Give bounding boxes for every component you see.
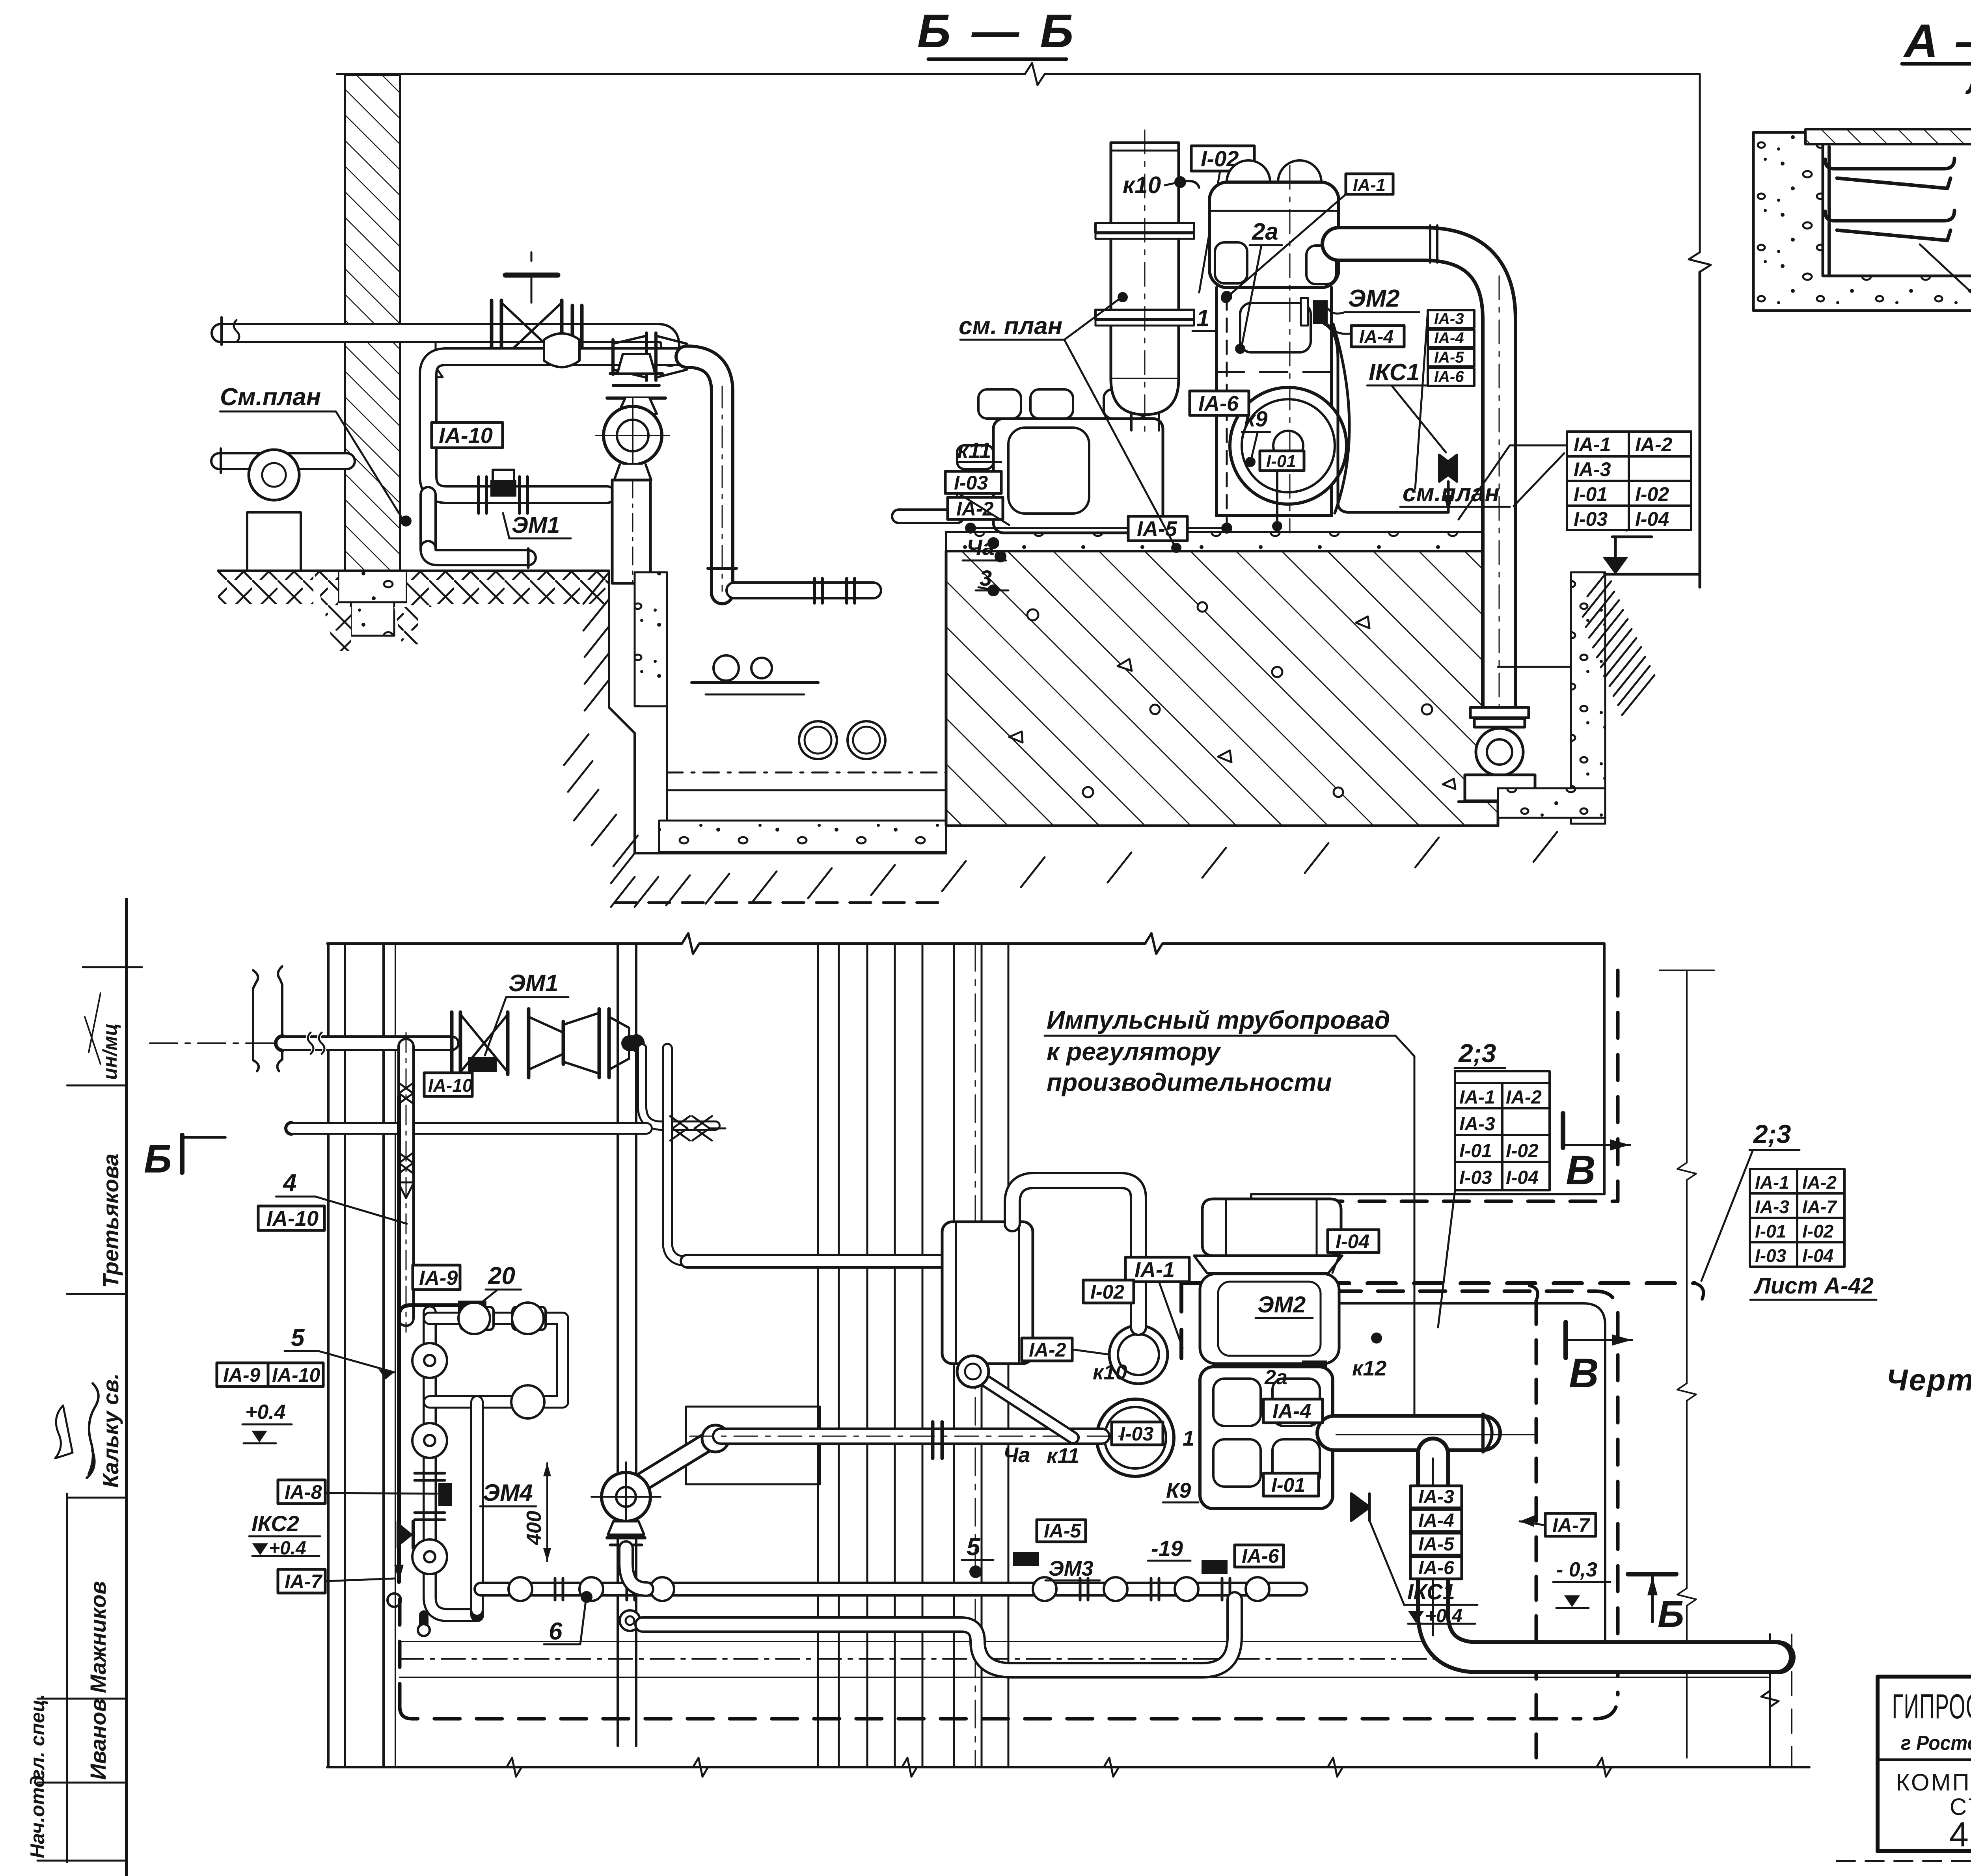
k10 standpipe	[1012, 1180, 1138, 1327]
svg-text:I-01: I-01	[1459, 1141, 1492, 1161]
label IA-5 box	[1128, 516, 1187, 541]
svg-text:IА-2: IА-2	[1029, 1339, 1066, 1361]
svg-text:I-01: I-01	[1271, 1474, 1305, 1496]
svg-text:IА-1: IА-1	[1135, 1258, 1175, 1282]
gate valve with handwheel on P1	[492, 252, 562, 362]
svg-text:см. план: см. план	[959, 313, 1062, 340]
right room wall niche	[1251, 944, 1605, 1655]
svg-text:ЭМ1: ЭМ1	[512, 512, 560, 538]
small U loop under manifold	[643, 1599, 1235, 1670]
svg-text:I-02: I-02	[1506, 1141, 1539, 1161]
hidden cable dashed inside machine	[1226, 296, 1228, 528]
SECTION A-A	[1753, 15, 1971, 438]
label I-04	[1328, 1230, 1379, 1253]
svg-text:IА-4: IА-4	[1272, 1400, 1311, 1423]
bottom-right axis pair with B mark	[1761, 1634, 1792, 1767]
svg-text:В: В	[1569, 1350, 1599, 1396]
svg-text:Кальку св.: Кальку св.	[98, 1373, 123, 1488]
machines: oil separator	[942, 1222, 1033, 1364]
svg-text:2а: 2а	[1252, 218, 1278, 245]
svg-text:I-01: I-01	[1755, 1221, 1786, 1241]
label IA-9 box + 20	[413, 1265, 460, 1290]
svg-text:IА-1: IА-1	[1459, 1087, 1495, 1108]
svg-text:ЭМ1: ЭМ1	[509, 970, 558, 996]
svg-text:ГИПРОСТРОЙДОРМАШ: ГИПРОСТРОЙДОРМАШ	[1892, 1687, 1971, 1726]
pipe bottom flange and support	[1459, 707, 1541, 802]
svg-text:IА-3: IА-3	[1459, 1114, 1495, 1135]
wall footing	[338, 571, 407, 602]
svg-text:I-02: I-02	[1802, 1221, 1834, 1241]
wall striped band (pipe chase)	[818, 944, 1008, 1767]
svg-text:I-01: I-01	[1574, 483, 1608, 505]
top wall line	[327, 933, 1604, 954]
solenoid EM1 plan	[468, 1057, 497, 1072]
svg-text:IА-6: IА-6	[1418, 1558, 1454, 1578]
plan valve cluster	[452, 1009, 629, 1078]
svg-text:ЭМ2: ЭМ2	[1257, 1292, 1306, 1318]
compressor crankcase with flywheel	[1217, 324, 1349, 516]
title block texts	[1892, 1682, 1971, 1854]
TITLE BLOCK	[1878, 1677, 1971, 1851]
svg-text:I-02: I-02	[1635, 483, 1669, 505]
svg-text:4: 4	[282, 1169, 296, 1197]
suction header bulge	[1334, 1414, 1535, 1452]
svg-text:IКС1: IКС1	[1369, 359, 1420, 385]
svg-text:Лист А-42: Лист А-42	[1965, 69, 1971, 100]
svg-text:I-04: I-04	[1635, 508, 1669, 530]
piping ladder left	[397, 1303, 563, 1636]
svg-text:к9: к9	[1244, 406, 1268, 431]
label IA-10 box	[432, 422, 503, 448]
svg-text:IА-5: IА-5	[1137, 517, 1177, 541]
svg-text:IА-8: IА-8	[285, 1481, 322, 1503]
underground pipe in trench	[734, 579, 873, 603]
check valve filled	[1439, 455, 1457, 482]
svg-text:IА-5: IА-5	[1418, 1534, 1455, 1555]
label I-01 box	[1260, 451, 1304, 471]
svg-text:IА-6: IА-6	[1242, 1545, 1280, 1567]
pillar at top left (wall column with breaks)	[253, 970, 259, 1071]
svg-text:IА-4: IА-4	[1359, 326, 1393, 347]
section mark V upper	[1561, 1113, 1565, 1148]
svg-text:- 0,3: - 0,3	[1556, 1558, 1597, 1581]
label IA-7 left	[278, 1569, 325, 1593]
pipe from valves to machines	[687, 1254, 958, 1269]
svg-text:Лист А-42: Лист А-42	[1753, 1273, 1874, 1299]
machines: flywheel plan	[1097, 1399, 1174, 1476]
svg-text:к регулятору: к регулятору	[1047, 1037, 1222, 1066]
pit right of foundation	[1498, 572, 1699, 824]
svg-text:5: 5	[291, 1324, 305, 1351]
hatched lid	[1805, 129, 1971, 144]
machines: air filter plan	[1109, 1325, 1168, 1384]
svg-text:IА-2: IА-2	[1802, 1172, 1837, 1193]
label IA-10 top box	[424, 1073, 472, 1096]
section mark B bottom right	[1628, 1572, 1676, 1576]
oil line diagonal to flywheel	[957, 1356, 1073, 1438]
flow lens on P2	[544, 333, 579, 367]
svg-text:IА-1: IА-1	[1755, 1172, 1789, 1193]
table right of section	[1567, 432, 1691, 530]
svg-text:Б: Б	[144, 1137, 172, 1181]
machines: intake housing plan	[1194, 1199, 1342, 1273]
compressor centreline	[1289, 166, 1291, 533]
lower wall pipe y2850	[285, 1116, 725, 1141]
svg-text:I-03: I-03	[1574, 508, 1608, 530]
svg-text:I-01: I-01	[1266, 452, 1296, 471]
svg-text:См.план: См.план	[220, 383, 321, 411]
cable racks left	[1825, 158, 1954, 240]
svg-text:I-04: I-04	[1336, 1230, 1369, 1253]
svg-text:IА-1: IА-1	[1353, 175, 1386, 195]
svg-text:к10: к10	[1123, 172, 1161, 198]
SECTION B-B	[218, 5, 1711, 907]
band centreline	[975, 944, 976, 1767]
label IA-8	[278, 1480, 325, 1504]
svg-text:IА-4: IА-4	[1434, 329, 1464, 347]
signature texts rotated	[26, 1023, 123, 1858]
left cylinder block machine	[957, 389, 1163, 533]
section mark V lower	[1563, 1322, 1568, 1358]
stacked boxes IA-3..IA-6 right	[1410, 1486, 1462, 1579]
svg-text:Нач.отд.: Нач.отд.	[26, 1770, 48, 1858]
drop pipe to trench	[687, 357, 736, 593]
svg-text:4К-10А: 4К-10А	[1949, 1815, 1971, 1854]
left wall double line	[328, 944, 636, 1767]
concrete trench body	[1753, 132, 1971, 311]
svg-text:IА-2: IА-2	[1635, 434, 1673, 456]
svg-text:I-03: I-03	[1755, 1245, 1787, 1266]
supply pipe end bulb and risers	[629, 1035, 715, 1261]
signature column lines	[37, 899, 142, 1876]
rack posts	[1829, 147, 1971, 274]
big discharge loop pipe	[1433, 1454, 1779, 1657]
foundation hatched block	[946, 532, 1498, 826]
machines: motor EM2 plan	[1200, 1274, 1339, 1364]
compressor head	[1209, 160, 1339, 288]
horizontal pipe to flywheel	[690, 1422, 1123, 1458]
labels I-03 IA-2 Cha 3 left column	[945, 471, 1001, 493]
pump slab outline	[686, 1407, 820, 1484]
svg-text:IКС1: IКС1	[1407, 1579, 1455, 1604]
label IA-7 right box	[1545, 1513, 1596, 1536]
machines: compressor body plan	[1200, 1367, 1333, 1509]
bypass loop P2	[428, 357, 687, 568]
svg-text:IКС2: IКС2	[251, 1511, 299, 1536]
pipe stub to left machine	[899, 508, 957, 524]
label I-03 box	[1112, 1422, 1163, 1445]
svg-text:2;3: 2;3	[1458, 1038, 1496, 1068]
dashed mark under title block	[1837, 1860, 1971, 1862]
check valve dark in plan	[1351, 1494, 1369, 1521]
svg-text:ЭМ4: ЭМ4	[483, 1480, 533, 1506]
svg-text:К9: К9	[1166, 1479, 1191, 1502]
wall hatched	[345, 75, 400, 571]
svg-text:Импульсный трубопровад: Импульсный трубопровад	[1047, 1006, 1390, 1034]
label I-02 box	[1191, 146, 1254, 171]
svg-text:ЭМ3: ЭМ3	[1049, 1557, 1094, 1580]
labels IA-9 IA-10 pair	[217, 1363, 268, 1387]
dashed cable route D3	[400, 1599, 1618, 1719]
cable from EM2 down body side	[1325, 324, 1448, 512]
label EM3 + IA-5	[1037, 1520, 1086, 1542]
dashed cable route D2 along niche	[1257, 970, 1618, 1695]
svg-text:IА-2: IА-2	[956, 498, 994, 520]
svg-text:Мажников: Мажников	[86, 1581, 110, 1693]
svg-text:I-04: I-04	[1506, 1167, 1539, 1188]
svg-text:I-03: I-03	[1459, 1167, 1492, 1188]
ground line left	[218, 569, 609, 572]
svg-text:Чертеж выполнен на листах: Чертеж выполнен на листах А-42... А-44.	[1886, 1363, 1971, 1397]
svg-text:400: 400	[523, 1511, 546, 1545]
svg-text:IА-4: IА-4	[1418, 1510, 1454, 1531]
drain valve below P1	[428, 342, 443, 388]
svg-text:2;3: 2;3	[1753, 1119, 1791, 1148]
svg-text:-19: -19	[1151, 1536, 1183, 1561]
svg-text:I-02: I-02	[1090, 1281, 1124, 1303]
svg-text:20: 20	[488, 1262, 515, 1290]
suction pipe P1 through wall with valves	[221, 317, 670, 357]
label IA-4 box	[1351, 326, 1404, 347]
svg-text:2а: 2а	[1264, 1366, 1287, 1389]
svg-text:см.план: см.план	[1403, 480, 1500, 507]
svg-text:IА-7: IА-7	[285, 1571, 323, 1593]
svg-text:к12: к12	[1352, 1357, 1386, 1380]
trench left of foundation	[564, 572, 1557, 907]
air filter column	[1095, 130, 1194, 434]
discharge big pipe	[1339, 225, 1499, 707]
svg-text:IА-10: IА-10	[272, 1364, 320, 1386]
svg-text:1: 1	[1196, 305, 1209, 331]
svg-text:IА-3: IА-3	[1434, 310, 1464, 328]
svg-text:IА-10: IА-10	[439, 423, 493, 448]
svg-text:г Ростов-на-Дону 1976г: г Ростов-на-Дону 1976г	[1901, 1732, 1971, 1755]
stacked boxes IA-3..IA-6	[1428, 310, 1474, 386]
svg-text:ЭМ2: ЭМ2	[1348, 285, 1400, 312]
svg-text:А — А: А — А	[1903, 15, 1971, 67]
compressor body	[1217, 288, 1332, 516]
svg-text:ин/мц: ин/мц	[99, 1023, 121, 1080]
svg-text:IА-3: IА-3	[1574, 458, 1611, 480]
svg-text:IА-3: IА-3	[1418, 1487, 1454, 1507]
dashed drop to IA-7	[1529, 1286, 1538, 1301]
svg-text:I-03: I-03	[1120, 1423, 1153, 1445]
bottom wall line	[327, 1758, 1809, 1777]
machines bottom line	[946, 531, 1498, 533]
svg-text:IА-6: IА-6	[1198, 392, 1239, 415]
bottom manifold pipe	[481, 1577, 1301, 1601]
slanted pump unit lower	[591, 1425, 729, 1631]
svg-text:IА-9: IА-9	[419, 1267, 458, 1290]
svg-text:IА-9: IА-9	[223, 1364, 261, 1386]
svg-text:IА-5: IА-5	[1434, 349, 1464, 366]
axis line right	[1660, 970, 1714, 1758]
svg-text:Б — Б: Б — Б	[917, 5, 1078, 58]
pump unit	[596, 354, 669, 583]
svg-text:IА-3: IА-3	[1755, 1197, 1789, 1217]
solenoid valve EM1 on P2 mid branch	[479, 470, 527, 513]
expansion joint flanges on P1	[572, 305, 582, 361]
svg-text:I-03: I-03	[954, 472, 988, 494]
floor channel lines	[400, 1641, 1768, 1642]
section right boundary	[1689, 74, 1711, 587]
svg-text:IА-1: IА-1	[1574, 434, 1611, 456]
svg-text:Б: Б	[1658, 1593, 1684, 1635]
svg-text:к11: к11	[1047, 1444, 1079, 1468]
svg-text:производительности: производительности	[1047, 1068, 1332, 1096]
PLAN VIEW	[144, 933, 1876, 1777]
ground crosshatch band left	[218, 572, 313, 604]
svg-text:Иванов: Иванов	[86, 1699, 110, 1780]
svg-text:IА-5: IА-5	[1044, 1520, 1082, 1542]
svg-text:к10: к10	[1093, 1360, 1127, 1384]
concrete pad strip under machines	[946, 532, 1498, 551]
svg-text:IА-7: IА-7	[1552, 1514, 1591, 1536]
svg-text:IА-10: IА-10	[428, 1075, 473, 1096]
svg-text:IА-6: IА-6	[1434, 368, 1464, 385]
svg-text:КОМПРЕССОРНАЯ: КОМПРЕССОРНАЯ	[1896, 1769, 1971, 1796]
svg-text:В: В	[1566, 1147, 1596, 1193]
heavy cable down corridor	[397, 1096, 401, 1582]
small pump left	[219, 449, 347, 571]
datum line	[337, 63, 1700, 85]
label IA-6 box	[1190, 391, 1249, 415]
reducer cones on P2 right	[613, 333, 687, 380]
solenoid EM2	[1313, 300, 1328, 324]
svg-text:Ча: Ча	[1003, 1443, 1030, 1467]
impulse riser pipe	[398, 1033, 414, 1332]
supply pipe into plan	[150, 1033, 452, 1054]
svg-text:+0.4: +0.4	[245, 1401, 286, 1424]
trench interior fittings	[692, 681, 818, 684]
signature scribbles	[87, 1383, 99, 1478]
svg-text:IА-10: IА-10	[266, 1207, 319, 1230]
svg-text:5: 5	[967, 1534, 981, 1561]
svg-text:IА-2: IА-2	[1506, 1087, 1542, 1108]
dashed cable route D1	[1181, 1283, 1695, 1360]
label IA-6	[1235, 1545, 1284, 1567]
svg-text:IА-7: IА-7	[1802, 1197, 1837, 1217]
svg-text:Третьякова: Третьякова	[98, 1154, 123, 1288]
svg-text:гл. спец.: гл. спец.	[26, 1694, 48, 1780]
svg-text:1: 1	[1183, 1427, 1194, 1450]
section mark B top (letter on left wall)	[180, 1135, 184, 1172]
labels around compressor plan	[1125, 1257, 1189, 1282]
label IA-10 left box	[258, 1206, 324, 1230]
svg-text:I-04: I-04	[1802, 1245, 1833, 1266]
svg-text:к11: к11	[957, 438, 991, 463]
label IA-1 box	[1346, 174, 1393, 194]
